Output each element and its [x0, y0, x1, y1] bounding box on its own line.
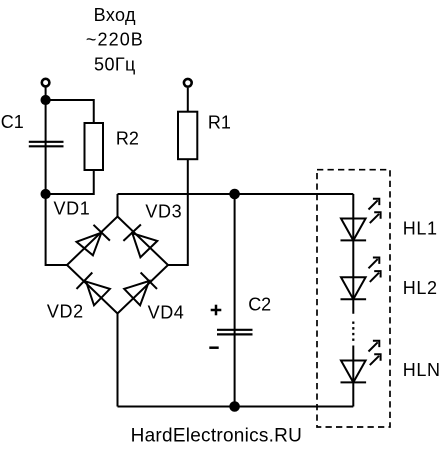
node C junction dot (DC+ / C2 top) — [229, 189, 240, 200]
label C2 polarity minus — [209, 346, 218, 349]
wire: bridge diamond sides — [67, 217, 168, 314]
terminal X2 (right AC input) — [184, 79, 192, 87]
capacitor C1 plates — [29, 142, 64, 147]
wire: R1 bottom down (crosses DC+ rail, no junction) to bridge right vertex — [168, 159, 188, 265]
svg-text:R1: R1 — [208, 112, 231, 132]
wire: node B down to bridge left vertex — [46, 194, 67, 265]
svg-text:C1: C1 — [1, 112, 24, 132]
label C2 polarity plus — [211, 305, 222, 316]
svg-text:HardElectronics.RU: HardElectronics.RU — [131, 426, 303, 447]
svg-text:HL2: HL2 — [403, 278, 438, 298]
node D junction dot (DC- / C2 bottom) — [229, 401, 240, 412]
svg-text:VD3: VD3 — [145, 202, 182, 222]
resistor R1 body — [178, 112, 197, 160]
resistor R2 body — [85, 123, 104, 170]
wire: R2 bottom to node B — [46, 170, 94, 194]
net label: Вход ~220В 50Гц (AC input) — [86, 5, 144, 75]
wire: node A down through C1 to node B — [45, 100, 47, 194]
dashed enclosure (LED string box) — [317, 170, 390, 427]
wire: C2 branch vertical — [234, 194, 236, 407]
diode VD1 (bridge top-left) — [77, 225, 110, 256]
wire: LED chain vertical (lower) — [352, 346, 354, 407]
terminal X1 (left AC input) — [42, 79, 50, 87]
svg-text:50Гц: 50Гц — [94, 55, 136, 75]
wire: bridge top vertex up to DC+ rail — [117, 194, 119, 217]
svg-text:R2: R2 — [116, 129, 139, 149]
wire: X2 terminal to R1 top — [187, 88, 189, 112]
svg-text:~220В: ~220В — [86, 30, 144, 50]
svg-text:VD2: VD2 — [47, 301, 84, 321]
svg-text:HL1: HL1 — [403, 219, 438, 239]
diode VD4 (bridge bottom-right) — [124, 273, 157, 306]
LED HL2 — [341, 258, 381, 300]
LED HL1 — [341, 199, 381, 241]
diode VD3 (bridge top-right) — [123, 225, 157, 258]
svg-text:HLN: HLN — [403, 360, 441, 380]
wire: node A right to R2 top branch — [46, 100, 94, 123]
node B junction dot (C1 bottom / R2 bottom) — [41, 189, 51, 199]
wire: bridge bottom vertex down to DC- rail — [117, 314, 119, 407]
diode VD2 (bridge bottom-left) — [77, 273, 110, 306]
wire: X1 terminal to node A — [45, 88, 47, 101]
node A junction dot (C1/R2 top) — [41, 95, 51, 105]
wire: DC+ rail (top horizontal to LED chain) — [118, 193, 354, 195]
svg-text:VD1: VD1 — [54, 199, 91, 219]
wire: LED chain vertical (upper) — [352, 194, 354, 314]
capacitor C2 plates — [217, 330, 253, 335]
wire: LED chain dotted continuation — [352, 322, 354, 342]
LED HLN — [341, 341, 381, 383]
svg-text:C2: C2 — [248, 294, 271, 314]
svg-text:Вход: Вход — [94, 5, 136, 25]
svg-text:VD4: VD4 — [148, 303, 185, 323]
wire: DC- rail (bottom horizontal to LED chain) — [118, 406, 354, 408]
